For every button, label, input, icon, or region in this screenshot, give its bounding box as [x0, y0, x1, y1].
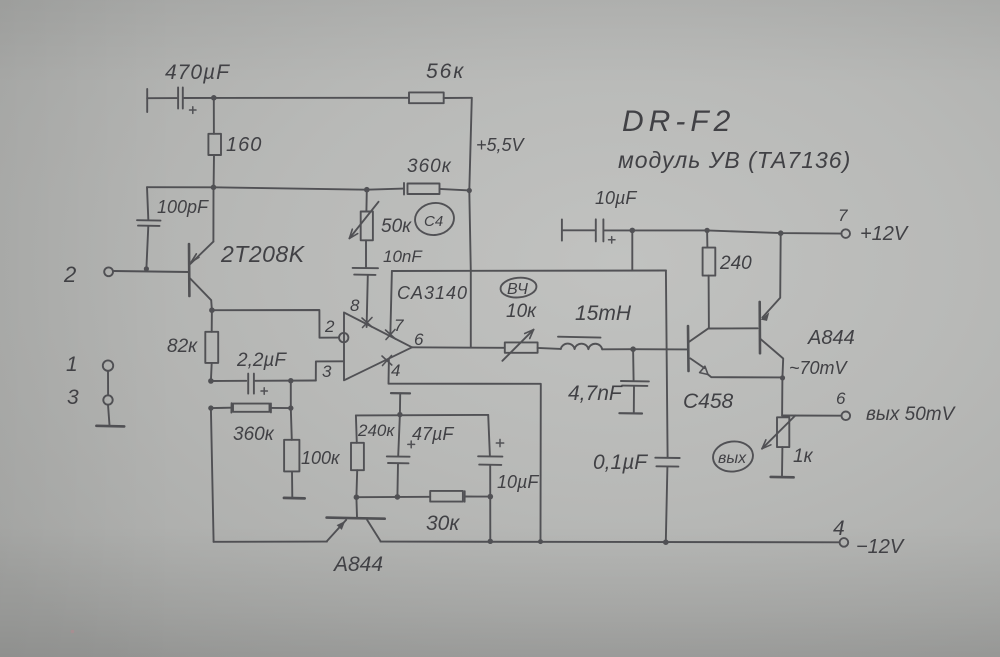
terminal 3 circle [103, 395, 112, 404]
node (47uF bottom junction) [395, 494, 401, 500]
node (output junction) [780, 375, 785, 380]
op-amp supply box left edge (pin 7) [390, 271, 392, 336]
node (240 junction) [704, 228, 709, 233]
wire [147, 97, 177, 99]
transistor Q3 A844 [760, 233, 784, 378]
capacitor C1 470uF [178, 88, 196, 114]
svg-text:DR-F2: DR-F2 [622, 105, 735, 138]
wire (op-amp output) [412, 346, 505, 349]
wire (bottom rail left) [214, 541, 327, 543]
capacitor stub (pin 4 bar) [391, 393, 410, 414]
paper speck [71, 630, 75, 634]
svg-text:CA3140: CA3140 [397, 283, 468, 303]
capacitor 47uF [387, 415, 415, 497]
node (collector/82k junction) [209, 307, 215, 313]
wire (left vertical to bottom rail) [211, 408, 214, 542]
op-amp U1 CA3140 triangle [344, 313, 412, 381]
resistor 82k [205, 310, 218, 381]
svg-text:100pF: 100pF [157, 197, 209, 217]
potentiometer 1k [762, 416, 795, 476]
svg-text:модуль УВ (ТА7136): модуль УВ (ТА7136) [618, 147, 851, 173]
transistor Q1 2T208K [189, 187, 214, 310]
node (0.1uF rail junction) [663, 539, 669, 545]
node (10uF bottom junction) [488, 494, 494, 500]
wire [107, 371, 109, 396]
terminal 2 circle [104, 267, 113, 276]
wire [602, 348, 633, 350]
svg-text:360к: 360к [233, 424, 275, 445]
svg-text:8: 8 [350, 296, 360, 315]
resistor 360k (top) [404, 183, 440, 195]
svg-text:C458: C458 [683, 390, 734, 413]
inverting input circle [339, 333, 348, 342]
svg-text:10µF: 10µF [497, 472, 539, 492]
svg-text:A844: A844 [332, 553, 383, 576]
inductor L1 15mH [558, 337, 602, 350]
svg-text:2: 2 [63, 262, 76, 287]
wire [444, 97, 472, 99]
svg-text:10к: 10к [506, 301, 537, 322]
svg-text:47µF: 47µF [412, 424, 454, 444]
node (470uF / 160 junction) [211, 95, 217, 101]
svg-text:~70mV: ~70mV [789, 358, 849, 378]
svg-text:4,7nF: 4,7nF [568, 382, 623, 405]
svg-text:3: 3 [67, 386, 79, 409]
svg-text:240к: 240к [357, 421, 395, 440]
node (10uF rail junction) [488, 539, 493, 544]
svg-text:ВЧ: ВЧ [507, 281, 528, 298]
capacitor 10nF [353, 268, 378, 327]
wire (middle rail) [147, 187, 404, 190]
wire (+12V rail) [632, 230, 841, 233]
svg-text:30к: 30к [426, 512, 460, 535]
svg-text:7: 7 [394, 316, 404, 335]
resistor 360k (bottom) [211, 403, 291, 412]
open terminal bar (input of 470uF) [146, 89, 148, 112]
wire (bias top line) [356, 414, 488, 417]
wire (to op-amp pin 2) [212, 310, 339, 338]
svg-text:вых 50mV: вых 50mV [866, 404, 957, 425]
resistor 56k [409, 92, 444, 103]
svg-text:+5,5V: +5,5V [476, 135, 526, 155]
node (160/emitter junction) [211, 185, 217, 191]
svg-text:82к: 82к [167, 336, 198, 357]
node (100pF/base junction) [144, 266, 149, 271]
node (2.2uF right junction) [288, 378, 293, 383]
resistor 100k [284, 408, 299, 497]
node (A844 base junction) [354, 494, 360, 500]
wire (to C458 base) [633, 348, 688, 350]
svg-text:3: 3 [322, 362, 332, 381]
node (50k junction) [364, 187, 370, 193]
wire [538, 348, 561, 349]
capacitor 100pF [137, 187, 161, 268]
svg-text:7: 7 [838, 206, 848, 225]
oval C4 [413, 200, 456, 237]
node (+12V rail left junction) [630, 228, 636, 234]
potentiometer 50k [349, 190, 378, 268]
capacitor 10uF (top) [562, 219, 632, 243]
svg-text:A844: A844 [807, 327, 855, 349]
ground (below 1k) [771, 476, 794, 479]
wire [184, 97, 409, 99]
terminal 1 circle [103, 360, 113, 370]
node (15mH/4.7nF junction) [630, 346, 636, 352]
resistor 240 [703, 230, 716, 328]
svg-text:2T208K: 2T208K [220, 241, 306, 267]
pin 8 cross mark [362, 318, 372, 328]
node (pin4 rail junction) [538, 539, 543, 544]
wire (bottom rail right) [381, 541, 840, 544]
wire (feedback vertical 56k/360k to output) [469, 98, 472, 347]
wire (supply line / box top) [392, 270, 666, 273]
transistor Q2 C458 [688, 326, 783, 377]
node (82k/2.2uF junction) [208, 378, 214, 384]
svg-text:10nF: 10nF [383, 247, 423, 266]
node (360k/feedback junction) [467, 188, 472, 193]
pin 4 cross mark [382, 356, 392, 366]
resistor 160 [208, 98, 221, 188]
svg-text:1: 1 [66, 353, 78, 376]
svg-text:15mH: 15mH [575, 302, 632, 325]
svg-text:6: 6 [836, 389, 846, 408]
wire (pin 4 line) [389, 359, 541, 542]
svg-text:2,2µF: 2,2µF [236, 350, 287, 371]
svg-text:6: 6 [414, 330, 424, 349]
svg-text:C4: C4 [424, 213, 443, 230]
potentiometer 10k [502, 330, 537, 361]
svg-text:2: 2 [324, 317, 335, 336]
svg-text:360к: 360к [407, 156, 452, 177]
wire [440, 189, 470, 191]
node (A844 emitter junction) [778, 230, 784, 236]
ground (below 100k) [284, 496, 305, 499]
svg-text:4: 4 [391, 361, 400, 380]
terminal 4 circle [840, 538, 849, 547]
svg-text:240: 240 [719, 253, 752, 274]
capacitor 10uF (bottom) [478, 415, 504, 541]
svg-text:160: 160 [226, 134, 262, 156]
node (360k-b right junction) [288, 405, 293, 410]
svg-text:вых: вых [718, 450, 747, 467]
svg-text:50к: 50к [381, 216, 412, 237]
pin 7 cross mark [386, 330, 396, 340]
wire (to output terminal) [782, 415, 841, 417]
svg-text:−12V: −12V [856, 536, 905, 558]
svg-text:470µF: 470µF [165, 61, 230, 84]
wire [108, 405, 110, 426]
wire (C458 collector to A844 base) [709, 327, 758, 329]
wire [781, 378, 783, 415]
capacitor 2.2uF [211, 374, 316, 395]
svg-text:10µF: 10µF [595, 188, 637, 208]
node (47uF top junction) [397, 412, 402, 417]
capacitor 4.7nF [619, 349, 649, 413]
svg-text:0,1µF: 0,1µF [593, 451, 648, 474]
wire (V+ riser) [631, 230, 633, 270]
svg-text:100к: 100к [301, 448, 341, 468]
wire (bias bottom line) [356, 496, 430, 498]
wire (base of 2T208K) [114, 271, 189, 272]
wire (pin 3 step) [316, 361, 344, 380]
wire [290, 381, 292, 408]
ground (below terminals) [96, 424, 124, 427]
resistor 240k [351, 415, 364, 497]
resistor 30k [430, 491, 490, 502]
node (360k-b left junction) [208, 405, 213, 410]
transistor Q4 A844 [327, 497, 385, 541]
svg-text:56к: 56к [426, 60, 465, 83]
svg-text:1к: 1к [793, 446, 814, 467]
svg-text:+12V: +12V [860, 223, 909, 245]
capacitor 0.1uF [655, 271, 679, 543]
terminal 6 circle [842, 412, 851, 421]
oval vyh [712, 439, 755, 473]
oval B4 [500, 276, 538, 299]
svg-text:4: 4 [833, 517, 845, 540]
terminal 7 circle [841, 229, 850, 238]
